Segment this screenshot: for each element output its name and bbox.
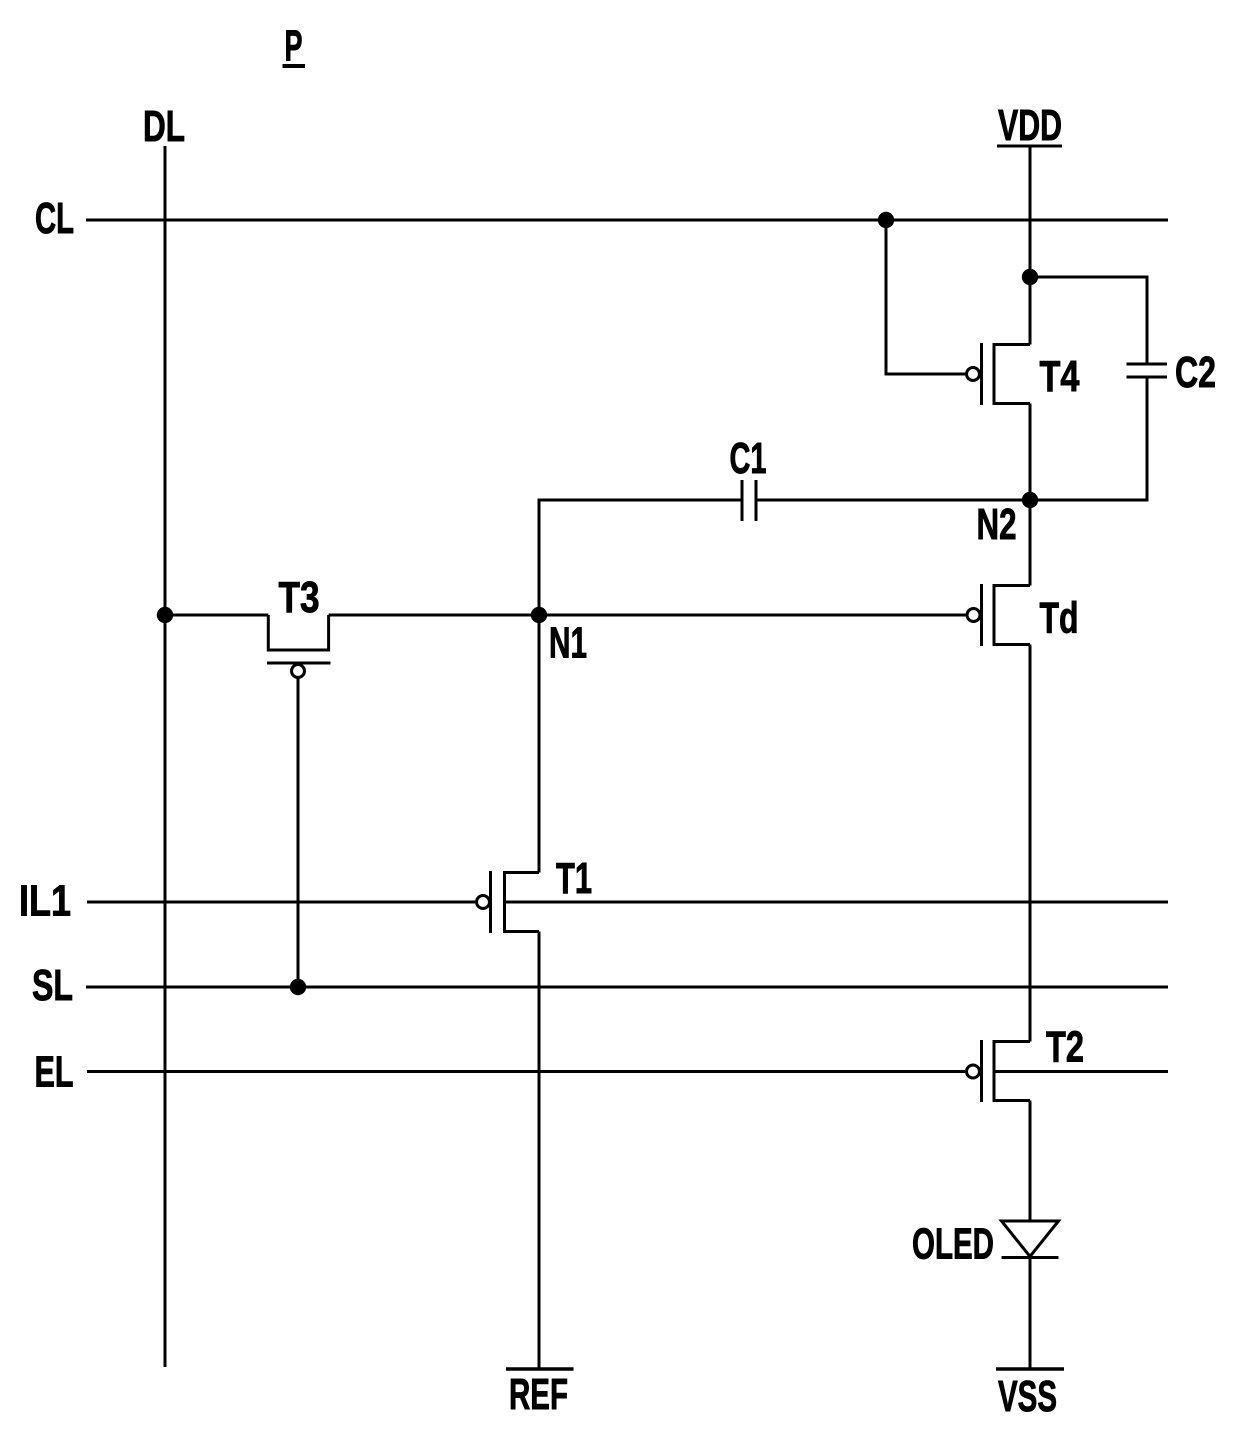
svg-text:N1: N1: [549, 619, 587, 668]
node P (pixel label with underline): [283, 22, 306, 71]
wire OLED to VSS: [1029, 1258, 1032, 1368]
wire CL horizontal: [86, 219, 1168, 222]
svg-text:C1: C1: [730, 434, 767, 483]
wire SL horizontal: [86, 986, 1168, 989]
wire T1 drain to N1: [538, 615, 541, 873]
wire T3 gate to SL: [297, 678, 300, 988]
transistor T1: [477, 871, 540, 933]
wire Td source to T2 drain: [1029, 645, 1032, 1042]
wire T1 source to REF: [538, 932, 541, 1368]
svg-text:IL1: IL1: [19, 877, 71, 926]
transistor T3: [267, 615, 331, 678]
wire C1 right plate to N2: [758, 499, 1031, 502]
wire T3 to N1 to Td gate: [329, 614, 966, 617]
wire junction to C2 top: [1030, 277, 1147, 363]
junction CL / T4 gate: [878, 212, 894, 228]
wire EL left: [87, 1070, 965, 1073]
wire IL1 right: [505, 901, 1169, 904]
junction N2: [1022, 492, 1038, 508]
junction DL / T3: [157, 607, 173, 623]
wire T4 drain to VDD junction: [1029, 277, 1032, 345]
transistor T4: [967, 343, 1031, 405]
svg-text:VDD: VDD: [998, 101, 1062, 150]
transistor Td: [967, 584, 1030, 646]
wire C1 left plate to N1: [539, 500, 741, 615]
svg-text:DL: DL: [143, 102, 185, 151]
svg-text:OLED: OLED: [912, 1220, 994, 1269]
junction VDD / T4 / C2: [1022, 269, 1038, 285]
diode OLED: [1002, 1221, 1059, 1258]
svg-text:T4: T4: [1040, 352, 1080, 401]
capacitor C2: [1127, 364, 1168, 377]
transistor T2: [967, 1040, 1031, 1102]
wire EL right: [994, 1070, 1168, 1073]
svg-text:REF: REF: [509, 1370, 568, 1419]
wire C2 bottom to N2: [1030, 379, 1147, 501]
svg-text:Td: Td: [1040, 594, 1079, 643]
svg-text:P: P: [285, 22, 303, 71]
wire DL to T3: [165, 614, 268, 617]
power VDD terminal: [997, 101, 1062, 150]
terminal REF: [506, 1369, 574, 1419]
svg-text:T3: T3: [279, 573, 320, 622]
svg-text:T1: T1: [556, 854, 592, 903]
svg-text:T2: T2: [1046, 1023, 1084, 1072]
wire Td drain to N2: [1029, 500, 1032, 586]
svg-text:SL: SL: [32, 961, 73, 1010]
wire DL vertical: [164, 146, 167, 1367]
svg-text:CL: CL: [35, 194, 74, 243]
svg-text:VSS: VSS: [998, 1372, 1057, 1421]
wire T4 source to N2: [1029, 404, 1032, 501]
wire T2 source to OLED: [1029, 1101, 1032, 1222]
svg-text:C2: C2: [1175, 348, 1216, 397]
wire T4 gate from CL: [886, 220, 965, 374]
capacitor C1: [742, 480, 756, 521]
svg-text:EL: EL: [35, 1048, 74, 1097]
wire IL1 left: [87, 901, 475, 904]
terminal VSS: [996, 1369, 1064, 1421]
junction T3 gate / SL: [290, 979, 306, 995]
svg-text:N2: N2: [977, 500, 1017, 549]
junction N1: [531, 607, 547, 623]
wire VDD to junction: [1029, 146, 1032, 277]
